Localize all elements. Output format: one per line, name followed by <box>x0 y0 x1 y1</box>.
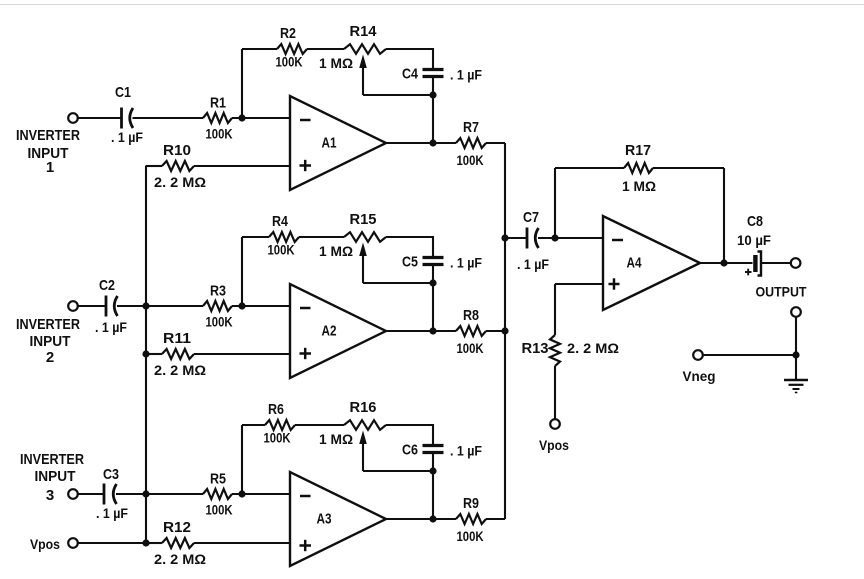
svg-text:INPUT: INPUT <box>30 333 71 350</box>
svg-text:C4: C4 <box>402 66 419 83</box>
svg-text:R2: R2 <box>280 25 296 42</box>
svg-text:100K: 100K <box>457 340 484 356</box>
svg-text:. 1 µF: . 1 µF <box>450 67 482 83</box>
svg-text:100K: 100K <box>457 152 484 168</box>
svg-text:2. 2 MΩ: 2. 2 MΩ <box>154 174 206 190</box>
svg-text:2. 2 MΩ: 2. 2 MΩ <box>154 551 206 567</box>
svg-text:INVERTER: INVERTER <box>20 451 84 468</box>
svg-text:R16: R16 <box>350 399 377 416</box>
svg-text:INVERTER: INVERTER <box>16 127 80 144</box>
svg-text:A1: A1 <box>322 135 337 152</box>
svg-text:100K: 100K <box>206 126 233 142</box>
svg-text:1: 1 <box>46 159 54 176</box>
svg-text:1 MΩ: 1 MΩ <box>319 431 353 447</box>
svg-text:Vneg: Vneg <box>683 368 716 384</box>
svg-text:C3: C3 <box>103 466 119 483</box>
svg-text:. 1 µF: . 1 µF <box>95 319 127 335</box>
svg-text:2. 2 MΩ: 2. 2 MΩ <box>154 362 206 378</box>
svg-text:A2: A2 <box>322 323 337 340</box>
svg-text:R1: R1 <box>210 95 226 112</box>
svg-text:R9: R9 <box>463 495 479 512</box>
svg-text:10 µF: 10 µF <box>737 232 771 248</box>
svg-text:Vpos: Vpos <box>30 536 60 552</box>
svg-text:A4: A4 <box>627 255 643 272</box>
svg-text:R8: R8 <box>463 307 479 324</box>
svg-text:100K: 100K <box>264 430 291 446</box>
svg-text:100K: 100K <box>276 54 303 70</box>
svg-text:A3: A3 <box>317 511 332 528</box>
svg-text:R3: R3 <box>210 283 226 300</box>
svg-text:2. 2 MΩ: 2. 2 MΩ <box>567 340 619 356</box>
svg-text:R14: R14 <box>350 23 378 40</box>
svg-text:1 MΩ: 1 MΩ <box>319 243 353 259</box>
svg-text:100K: 100K <box>268 242 295 258</box>
svg-text:. 1 µF: . 1 µF <box>450 255 482 271</box>
svg-text:C5: C5 <box>402 254 418 271</box>
svg-text:. 1 µF: . 1 µF <box>96 505 128 521</box>
svg-text:C8: C8 <box>747 213 763 230</box>
svg-text:R5: R5 <box>210 471 226 488</box>
svg-text:INPUT: INPUT <box>35 468 76 485</box>
svg-text:Vpos: Vpos <box>539 437 569 453</box>
svg-text:R11: R11 <box>163 330 191 347</box>
svg-text:INVERTER: INVERTER <box>16 316 80 333</box>
svg-text:C2: C2 <box>99 277 115 294</box>
svg-text:C6: C6 <box>402 442 418 459</box>
svg-text:1 MΩ: 1 MΩ <box>319 55 353 71</box>
svg-text:. 1 µF: . 1 µF <box>450 443 482 459</box>
svg-text:C7: C7 <box>523 209 539 226</box>
svg-text:OUTPUT: OUTPUT <box>756 285 808 300</box>
svg-text:R6: R6 <box>268 401 284 418</box>
svg-text:3: 3 <box>46 487 54 504</box>
svg-text:R15: R15 <box>350 211 377 228</box>
svg-text:100K: 100K <box>457 528 484 544</box>
svg-text:R13: R13 <box>522 340 549 357</box>
svg-text:R12: R12 <box>163 519 191 536</box>
svg-text:2: 2 <box>46 349 54 366</box>
svg-text:R7: R7 <box>463 119 479 136</box>
svg-text:R4: R4 <box>272 213 289 230</box>
svg-text:100K: 100K <box>206 502 233 518</box>
svg-text:R17: R17 <box>625 142 651 159</box>
svg-text:. 1 µF: . 1 µF <box>111 129 143 145</box>
svg-text:. 1 µF: . 1 µF <box>517 256 549 272</box>
svg-text:100K: 100K <box>206 314 233 330</box>
svg-text:1 MΩ: 1 MΩ <box>622 178 656 194</box>
svg-text:R10: R10 <box>163 142 191 159</box>
svg-text:C1: C1 <box>115 84 131 101</box>
